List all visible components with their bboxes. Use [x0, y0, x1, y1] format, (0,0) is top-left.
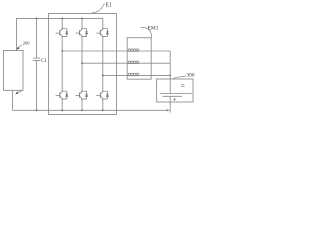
svg-text:200: 200: [23, 40, 31, 45]
svg-text:300: 300: [186, 73, 195, 79]
svg-text:EM1: EM1: [148, 26, 159, 32]
svg-text:E1: E1: [105, 3, 112, 9]
svg-text:C1: C1: [41, 59, 47, 64]
